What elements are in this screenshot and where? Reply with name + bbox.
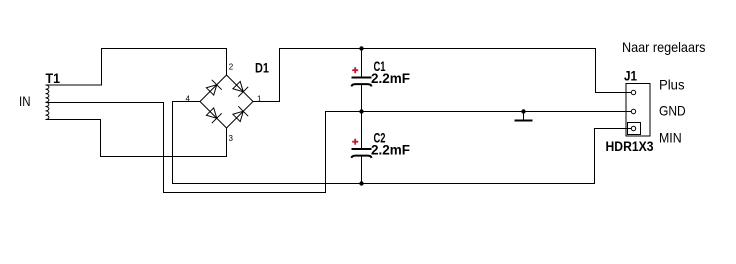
svg-text:2.2mF: 2.2mF	[371, 71, 410, 86]
svg-text:Naar regelaars: Naar regelaars	[622, 39, 706, 55]
svg-text:IN: IN	[19, 93, 31, 109]
capacitor C2 plates	[352, 149, 372, 158]
diode D1b (pin2 to pin1)	[233, 81, 248, 96]
junction node C1/C2 GND rail	[360, 110, 363, 113]
wire: bridge pin 4 to minus rail to J1 MIN	[173, 102, 632, 184]
wire: T1 top tap to bridge pin 2	[46, 49, 227, 86]
wire: T1 bottom tap to bridge pin 3	[46, 120, 227, 157]
diode D1d (pin3 to pin1)	[233, 106, 248, 121]
junction node C1 top	[360, 47, 363, 50]
svg-text:4: 4	[186, 95, 191, 104]
svg-text:GND: GND	[659, 103, 686, 119]
wire: bridge pin 1 to plus rail to J1 Plus	[253, 49, 631, 102]
capacitor C1 plates	[352, 78, 372, 87]
junction node C2 bottom	[360, 182, 363, 185]
bridge rectifier D1 diamond	[200, 75, 253, 128]
diode D1a (pin4 to pin2)	[206, 80, 221, 95]
svg-text:2.2mF: 2.2mF	[371, 143, 410, 158]
svg-text:MIN: MIN	[659, 130, 682, 146]
J1 pin MIN	[631, 126, 635, 130]
polarity + of C1	[352, 67, 358, 73]
svg-text:HDR1X3: HDR1X3	[606, 139, 654, 154]
J1 pin1 square marker	[628, 123, 641, 135]
svg-text:2: 2	[229, 63, 234, 72]
polarity + of C2	[352, 139, 358, 145]
svg-text:1: 1	[257, 95, 262, 104]
capacitor C2 branch wires	[361, 112, 363, 184]
transformer T1 coil	[46, 85, 49, 119]
capacitor C1 branch wires	[361, 49, 363, 112]
svg-text:D1: D1	[255, 61, 269, 76]
ground symbol	[515, 112, 533, 121]
svg-text:3: 3	[229, 134, 234, 143]
svg-text:T1: T1	[46, 70, 61, 86]
wire: T1 center tap to GND rail	[46, 103, 632, 193]
diode D1c (pin4 to pin3)	[206, 108, 221, 123]
J1 pin Plus	[631, 90, 635, 94]
J1 pin GND	[631, 109, 635, 113]
svg-text:J1: J1	[624, 69, 637, 84]
junction node ground	[522, 110, 525, 113]
svg-text:Plus: Plus	[659, 77, 685, 93]
connector J1 body	[626, 84, 650, 137]
